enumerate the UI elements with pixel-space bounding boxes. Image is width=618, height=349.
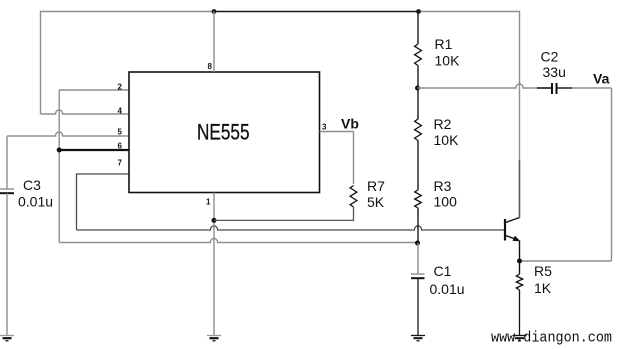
- svg-text:C3: C3: [23, 177, 41, 193]
- svg-text:R3: R3: [434, 178, 452, 194]
- wire bottom right to emitter: [520, 260, 612, 262]
- svg-text:R5: R5: [534, 263, 552, 279]
- svg-text:R7: R7: [367, 178, 385, 194]
- ground C3: [0, 336, 14, 341]
- svg-text:0.01u: 0.01u: [430, 281, 465, 297]
- node pin1 junction: [212, 218, 217, 223]
- svg-text:Vb: Vb: [341, 116, 359, 132]
- svg-text:6: 6: [118, 142, 123, 151]
- wire pin2-pin6 vertical: [58, 90, 60, 243]
- svg-text:C2: C2: [541, 49, 559, 65]
- transistor Q1: [505, 218, 520, 242]
- wire VCC to R1: [417, 12, 419, 45]
- op-amp U1 NE555 box: [129, 72, 320, 193]
- svg-text:R2: R2: [434, 116, 452, 132]
- svg-text:C1: C1: [434, 263, 452, 279]
- wire pin 1 vertical: [213, 193, 215, 336]
- wire R3 to C1 node: [417, 208, 419, 243]
- svg-text:2: 2: [118, 83, 123, 92]
- svg-text:3: 3: [322, 123, 327, 132]
- wire pin1 to R7 bottom: [214, 207, 354, 220]
- wire top rail left (gray): [41, 12, 215, 115]
- wire C1 to ground: [417, 278, 419, 335]
- wire pin 7 bend: [77, 174, 130, 230]
- ground C1: [411, 336, 425, 341]
- wire pin 6 (thick): [59, 149, 129, 151]
- wire pin 8 vertical: [213, 12, 215, 73]
- svg-text:5: 5: [118, 128, 123, 137]
- capacitor C3: [0, 188, 14, 190]
- wire pin 2: [59, 89, 129, 91]
- resistor R5: [516, 274, 522, 290]
- resistor R1: [415, 44, 422, 66]
- wire C2 to Va corner: [572, 87, 612, 89]
- wire emitter to R5: [519, 261, 521, 274]
- wire R1 to R2: [417, 66, 419, 120]
- svg-text:NE555: NE555: [197, 120, 250, 145]
- node R3/C1/lineB junction: [415, 241, 420, 246]
- svg-text:Va: Va: [593, 71, 610, 87]
- svg-text:1: 1: [206, 198, 211, 207]
- svg-text:7: 7: [118, 159, 123, 168]
- svg-text:1K: 1K: [534, 280, 552, 296]
- resistor R7: [350, 186, 357, 207]
- capacitor C2: [551, 83, 553, 94]
- wire R5 to ground: [519, 290, 521, 336]
- capacitor C1: [411, 273, 425, 275]
- wire top rail right to collector drop: [419, 12, 520, 219]
- wire line A pin7 to base with hops: [77, 226, 505, 230]
- wire right edge down: [611, 88, 613, 261]
- svg-text:8: 8: [208, 62, 213, 71]
- wire collector segment: [519, 160, 521, 218]
- resistor R2: [415, 119, 422, 140]
- wire emitter down: [519, 241, 521, 262]
- svg-text:5K: 5K: [367, 194, 385, 210]
- svg-text:www.diangon.com: www.diangon.com: [491, 331, 612, 347]
- wire C3 pin5 branch vertical: [6, 136, 8, 189]
- wire C3 to ground: [6, 193, 8, 335]
- svg-text:4: 4: [118, 107, 123, 116]
- node top R1 junction: [416, 9, 421, 14]
- node pin2/6 junction: [57, 148, 62, 153]
- svg-text:10K: 10K: [434, 132, 460, 148]
- ground R5: [513, 336, 527, 341]
- wire top rail middle (black): [214, 11, 419, 13]
- svg-text:0.01u: 0.01u: [18, 194, 53, 210]
- node R1/R2 junction: [415, 86, 420, 91]
- wire pin 3 to R7 top (Vb net): [320, 132, 354, 185]
- svg-text:33u: 33u: [543, 64, 566, 80]
- svg-text:10K: 10K: [435, 53, 461, 69]
- wire R1/R2 node to C2 with hop over collector drop: [418, 84, 552, 88]
- wire R2 to R3: [417, 141, 419, 191]
- resistor R3: [415, 190, 422, 208]
- wire pin 5 with hop: [7, 132, 129, 136]
- wire pin 4 with hop over vertical: [41, 110, 130, 114]
- svg-text:R1: R1: [435, 36, 453, 52]
- ground pin1: [207, 336, 221, 341]
- wire line B pins2,6 to C1 node with hop: [59, 238, 416, 242]
- node emitter junction: [517, 259, 522, 264]
- node top pin8 junction: [212, 9, 217, 14]
- wire node to C1: [417, 243, 419, 274]
- svg-text:100: 100: [434, 194, 458, 210]
